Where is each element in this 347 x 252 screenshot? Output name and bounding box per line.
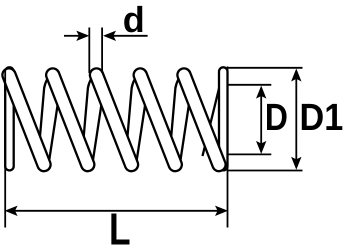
wire (back coil) line 3 (125, 79, 135, 161)
D extension line top (227, 84, 271, 86)
d leader line right (112, 35, 148, 37)
D1 arrow down (291, 157, 301, 170)
d arrow right (points left) (103, 31, 116, 41)
L extension line right (also right edge of end plate) (227, 67, 229, 228)
coil 2 (front) (44, 66, 96, 173)
L extension line left (4, 70, 6, 228)
wire (back coil) line 1 (38, 79, 48, 161)
spring end plate (last coil seen edge-on) (219, 67, 228, 170)
svg-text:d: d (123, 0, 145, 40)
wire (back coil) line 2 (82, 79, 92, 161)
svg-text:D1: D1 (300, 97, 344, 139)
D1 extension line bottom (228, 170, 303, 172)
D dimension line (260, 88, 262, 151)
wire (back coil) line 4 (169, 79, 179, 161)
D1 dimension line (295, 71, 297, 167)
D arrow down (256, 141, 266, 154)
coil 1 (front) (0, 66, 52, 173)
svg-text:L: L (109, 204, 131, 252)
d extension line left (88, 28, 90, 74)
L arrow right (points right) (215, 206, 228, 216)
wire back band inner edge 3 (137, 104, 146, 160)
coil 5 (front) (175, 66, 227, 173)
coil 4 (front) (132, 66, 184, 173)
wire back line to end plate (203, 79, 223, 156)
wire back band inner edge 1 (49, 104, 58, 160)
d arrow left (points right) (76, 31, 89, 41)
wire back band inner edge 0 (6, 104, 15, 160)
d leader line left (64, 35, 80, 37)
D extension line bottom (227, 153, 271, 155)
D1 extension line top (228, 67, 303, 69)
svg-text:D: D (265, 97, 288, 139)
coil 3 (front) (88, 66, 140, 173)
L arrow left (points left) (5, 206, 18, 216)
wire back band inner edge 2 (93, 104, 102, 160)
D1 arrow up (291, 69, 301, 82)
L dimension line (8, 210, 225, 212)
D arrow up (256, 86, 266, 99)
wire back band inner edge 4 (181, 104, 190, 160)
spring left end coil seen edge-on (left plate) (5, 67, 14, 170)
d extension line right (101, 28, 103, 74)
